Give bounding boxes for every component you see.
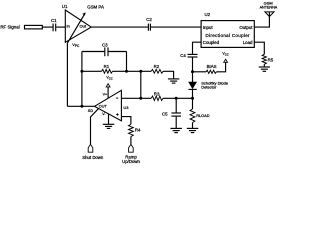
node C3 right junction: [125, 70, 128, 73]
schottky diode detector D1: [189, 82, 197, 89]
node C5 junction: [175, 97, 178, 100]
svg-text:ANTENNA: ANTENNA: [260, 6, 278, 10]
amplifier U1 (GSM PA): [65, 10, 91, 42]
node detector output junction: [191, 97, 194, 100]
svg-text:C5: C5: [162, 112, 168, 117]
ground below op-amp V-: [103, 123, 115, 125]
wire C5 to ground: [175, 117, 177, 129]
capacitor C2: [147, 24, 149, 31]
wire diode cathode to detector node: [192, 89, 194, 98]
svg-text:R1: R1: [104, 64, 110, 69]
op-amp U3: [95, 90, 122, 121]
svg-text:Input: Input: [203, 25, 214, 30]
pin V+ of U3: [107, 87, 109, 98]
wire op-amp output: [67, 105, 94, 107]
ground below RLOAD: [187, 127, 199, 129]
Ramp Up/Down input pad: [129, 144, 134, 152]
svg-text:Output: Output: [239, 25, 253, 30]
resistor BIAS: [206, 70, 216, 73]
resistor R3: [151, 96, 163, 100]
svg-text:RF Signal: RF Signal: [0, 25, 19, 30]
svg-text:GSM: GSM: [264, 0, 273, 5]
svg-text:C3: C3: [102, 42, 108, 47]
antenna (GSM ANTENNA): [265, 12, 274, 17]
svg-text:Shut Down: Shut Down: [82, 155, 104, 160]
RF source impedance box: [25, 25, 43, 29]
capacitor C5: [171, 112, 181, 114]
directional coupler U2: [201, 21, 254, 48]
svg-text:V+: V+: [103, 92, 108, 96]
wire detector node to RLOAD: [192, 98, 194, 109]
resistor R1: [102, 69, 113, 73]
svg-text:SD: SD: [88, 109, 94, 113]
wire non-inverting input to R4: [121, 117, 130, 125]
wire C2 to U2 input: [151, 26, 201, 28]
svg-text:Out: Out: [80, 23, 87, 28]
wire feedback node A line: [82, 70, 102, 72]
wire node A branch to inverting input line: [140, 71, 142, 98]
svg-text:Up/Down: Up/Down: [122, 159, 140, 164]
svg-text:Directional Coupler: Directional Coupler: [206, 33, 251, 38]
wire R2 to ground: [163, 71, 174, 79]
svg-text:R2: R2: [154, 64, 160, 69]
svg-text:C2: C2: [146, 17, 152, 22]
resistor RLOAD: [190, 109, 195, 123]
resistor R4: [129, 124, 134, 136]
wire SD pin to Shut Down pad: [91, 109, 99, 145]
wire U2 output to antenna: [254, 16, 269, 27]
node feedback-output junction: [80, 105, 83, 108]
wire bias resistor to VCC symbol: [216, 62, 225, 72]
pin non-inverting input mark of U3: [116, 114, 118, 116]
svg-text:R4: R4: [135, 128, 141, 133]
node inverting input junction: [139, 97, 142, 100]
ground below R2: [168, 78, 179, 80]
resistor R5: [262, 54, 266, 64]
svg-text:BIAS: BIAS: [207, 64, 217, 69]
wire C3 left leg down to op-amp output: [81, 52, 83, 107]
wire junction to C5: [175, 98, 177, 112]
pin inverting input mark of U3: [116, 97, 118, 99]
wire U2 load to R5: [254, 42, 264, 54]
capacitor C4: [188, 53, 198, 55]
node bias tap junction: [191, 70, 194, 73]
svg-text:Detector: Detector: [201, 84, 217, 89]
wire C1 to U1 input: [56, 26, 65, 28]
svg-text:C4: C4: [180, 53, 186, 58]
ground below R5: [259, 66, 270, 68]
svg-text:Load: Load: [243, 40, 253, 45]
svg-text:R3: R3: [154, 91, 160, 96]
svg-text:C1: C1: [51, 18, 57, 23]
wire R1 to R2: [113, 70, 152, 72]
wire source box to C1: [42, 26, 52, 28]
power VCC symbol (bias): [224, 59, 228, 62]
svg-text:GSM PA: GSM PA: [87, 5, 104, 10]
wire U2 coupled to C4: [193, 42, 202, 54]
wire U1 output to C2: [91, 26, 148, 28]
svg-text:U3: U3: [123, 105, 129, 110]
capacitor C3: [104, 47, 106, 56]
capacitor C1: [52, 24, 54, 32]
svg-text:U2: U2: [205, 12, 211, 17]
svg-text:Coupled: Coupled: [203, 40, 220, 45]
wire C3 top right: [109, 51, 127, 53]
pin V- of U3: [108, 114, 110, 124]
gain control arrow through U1: [67, 14, 84, 43]
node inverting branch junction: [139, 70, 142, 73]
wire C3 top left: [82, 51, 104, 53]
ground below C5: [170, 127, 182, 129]
resistor R2: [151, 69, 163, 73]
svg-text:In: In: [67, 24, 70, 29]
wire bias junction to bias resistor: [193, 71, 207, 73]
wire R3 to detector node: [163, 97, 193, 99]
node A left junction: [80, 70, 83, 73]
svg-text:R5: R5: [268, 58, 274, 63]
wire detector line to op-amp inverting input: [121, 97, 151, 99]
svg-text:U1: U1: [62, 4, 68, 9]
power VCC symbol (op-amp): [106, 84, 110, 87]
svg-text:RLOAD: RLOAD: [196, 113, 210, 118]
wire C4 to diode anode: [192, 58, 194, 83]
Shut Down input pad: [88, 144, 93, 152]
svg-text:OUT: OUT: [99, 105, 108, 109]
wire C3 right leg: [126, 52, 128, 72]
wire output up to VPC control: [66, 43, 68, 106]
